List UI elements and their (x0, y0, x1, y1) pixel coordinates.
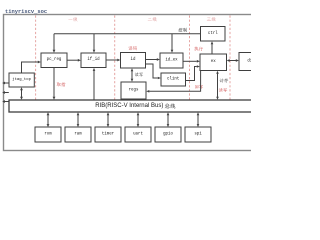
svg-text:id_ex: id_ex (165, 58, 178, 63)
svg-text:ram: ram (74, 133, 82, 137)
svg-text:spi: spi (194, 132, 202, 137)
svg-text:ex: ex (211, 60, 216, 64)
svg-text:pc_reg: pc_reg (47, 58, 62, 62)
svg-text:ctrl: ctrl (208, 31, 218, 36)
svg-text:RIB(RISC-V Internal Bus): RIB(RISC-V Internal Bus) (95, 103, 163, 109)
svg-text:jtag_top: jtag_top (12, 77, 31, 82)
svg-text:rom: rom (44, 133, 52, 137)
svg-text:tinyriscv_soc: tinyriscv_soc (5, 9, 47, 15)
svg-text:div: div (247, 59, 251, 64)
svg-text:uart: uart (133, 133, 143, 137)
svg-text:id: id (131, 57, 136, 62)
svg-text:clint: clint (167, 77, 180, 82)
svg-text:gpio: gpio (163, 132, 173, 137)
svg-text:timer: timer (102, 132, 115, 137)
svg-text:if_id: if_id (87, 57, 100, 62)
svg-text:regs: regs (129, 89, 139, 93)
